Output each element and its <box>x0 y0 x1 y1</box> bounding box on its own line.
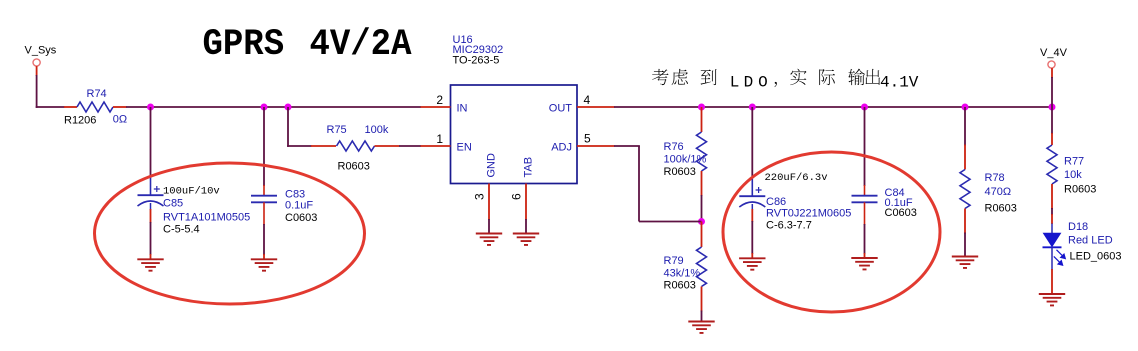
node C83 tap <box>261 104 268 111</box>
resistor R76 <box>701 107 703 132</box>
resistor R77 <box>1051 107 1053 134</box>
svg-text:5: 5 <box>584 132 591 146</box>
svg-text:TAB: TAB <box>523 157 535 178</box>
svg-text:LED_0603: LED_0603 <box>1070 250 1122 262</box>
svg-text:R79: R79 <box>664 255 684 267</box>
node EN tap <box>285 104 292 111</box>
svg-text:6: 6 <box>510 193 524 200</box>
svg-text:C85: C85 <box>163 198 183 210</box>
resistor R78 <box>964 107 966 146</box>
pin 4 OUT <box>577 106 615 108</box>
svg-text:R0603: R0603 <box>338 161 370 173</box>
capacitor C84 <box>864 107 866 186</box>
ground C84 <box>851 258 877 269</box>
pin 2 IN <box>421 106 451 108</box>
svg-text:0Ω: 0Ω <box>113 114 127 126</box>
svg-text:D: D <box>744 74 754 92</box>
LED D18 <box>1044 233 1061 246</box>
capacitor C86 <box>751 107 753 176</box>
svg-text:100k/1%: 100k/1% <box>664 154 707 166</box>
svg-text:0.1uF: 0.1uF <box>285 199 313 211</box>
ground pin6 <box>513 234 539 245</box>
svg-text:100k: 100k <box>365 124 389 136</box>
svg-text:C0603: C0603 <box>285 212 317 224</box>
svg-text:100uF/10v: 100uF/10v <box>163 186 220 198</box>
svg-text:TO-263-5: TO-263-5 <box>453 55 500 67</box>
wire C83 branch <box>263 107 265 186</box>
resistor R74 <box>64 106 77 108</box>
svg-text:R1206: R1206 <box>64 114 96 126</box>
ground C85 <box>137 259 163 270</box>
ground R79 <box>688 322 714 333</box>
capacitor C85 <box>150 176 152 195</box>
wire C85 to ground <box>150 203 152 210</box>
svg-text:2: 2 <box>436 93 443 107</box>
svg-text:C0603: C0603 <box>885 207 917 219</box>
svg-text:R74: R74 <box>87 88 107 100</box>
highlight ellipse right <box>723 152 940 312</box>
wire V_Sys down <box>36 66 38 76</box>
wire R75 to EN pin <box>399 145 421 147</box>
svg-text:ADJ: ADJ <box>551 142 572 154</box>
svg-text:R78: R78 <box>985 172 1005 184</box>
pin 5 ADJ <box>577 145 615 147</box>
svg-text:D18: D18 <box>1068 221 1088 233</box>
svg-text:R0603: R0603 <box>985 202 1017 214</box>
svg-text:V_Sys: V_Sys <box>25 45 57 57</box>
svg-text:4V/2A: 4V/2A <box>310 23 413 66</box>
wire EN branch <box>287 107 289 147</box>
wire D18 to ground <box>1051 269 1053 294</box>
svg-text:V_4V: V_4V <box>1040 47 1068 59</box>
ground R78 <box>952 257 978 268</box>
svg-text:C-6.3-7.7: C-6.3-7.7 <box>766 219 812 231</box>
svg-text:R0603: R0603 <box>1064 184 1096 196</box>
svg-text:4: 4 <box>584 93 591 107</box>
node C86 tap <box>749 104 756 111</box>
highlight ellipse left <box>95 163 365 304</box>
wire R74 to IN pin <box>126 106 421 108</box>
ground D18 <box>1039 294 1065 305</box>
node R76 tap <box>698 104 705 111</box>
svg-text:GND: GND <box>486 153 498 178</box>
title GPRS 4V/2A <box>203 23 413 66</box>
ground pin3 <box>476 234 502 245</box>
node V_4V tap <box>1049 104 1056 111</box>
annotation chinese text <box>652 69 669 85</box>
ground C83 <box>251 259 277 270</box>
svg-text:EN: EN <box>457 142 472 154</box>
wire ADJ to divider <box>614 145 640 147</box>
svg-text:3: 3 <box>473 193 487 200</box>
ground C86 <box>739 258 765 269</box>
wire OUT rail <box>614 106 1052 108</box>
svg-text:C86: C86 <box>766 196 786 208</box>
svg-text:R77: R77 <box>1064 156 1084 168</box>
capacitor C83 <box>263 185 265 196</box>
wire C86 to ground <box>751 204 753 210</box>
svg-text:Red LED: Red LED <box>1068 234 1113 246</box>
svg-text:O: O <box>758 74 768 92</box>
svg-text:GPRS: GPRS <box>203 23 285 66</box>
resistor R79 <box>701 222 703 248</box>
svg-text:4.1V: 4.1V <box>880 74 919 92</box>
svg-text:470Ω: 470Ω <box>985 186 1012 198</box>
wire C83 to ground <box>263 202 265 225</box>
node C85 tap <box>147 104 154 111</box>
svg-text:R76: R76 <box>664 141 684 153</box>
pin 1 EN <box>421 145 451 147</box>
node R78 tap <box>962 104 969 111</box>
resistor R75 <box>311 145 336 147</box>
wire V_Sys to R74 <box>36 106 65 108</box>
svg-text:R0603: R0603 <box>664 166 696 178</box>
svg-text:R0603: R0603 <box>664 280 696 292</box>
svg-text:RVT1A101M0505: RVT1A101M0505 <box>163 211 250 223</box>
svg-text:1: 1 <box>436 132 443 146</box>
wire C84 to ground <box>864 202 866 225</box>
svg-text:R75: R75 <box>327 124 347 136</box>
svg-text:220uF/6.3v: 220uF/6.3v <box>765 172 828 184</box>
svg-text:RVT0J221M0605: RVT0J221M0605 <box>766 208 851 220</box>
wire C85 branch <box>150 107 152 176</box>
svg-text:IN: IN <box>457 103 468 115</box>
node ADJ junction <box>698 218 705 225</box>
svg-text:C-5-5.4: C-5-5.4 <box>163 224 200 236</box>
svg-text:L: L <box>730 74 740 92</box>
svg-text:10k: 10k <box>1064 169 1082 181</box>
node C84 tap <box>861 104 868 111</box>
svg-text:OUT: OUT <box>549 103 573 115</box>
svg-text:43k/1%: 43k/1% <box>664 267 701 279</box>
